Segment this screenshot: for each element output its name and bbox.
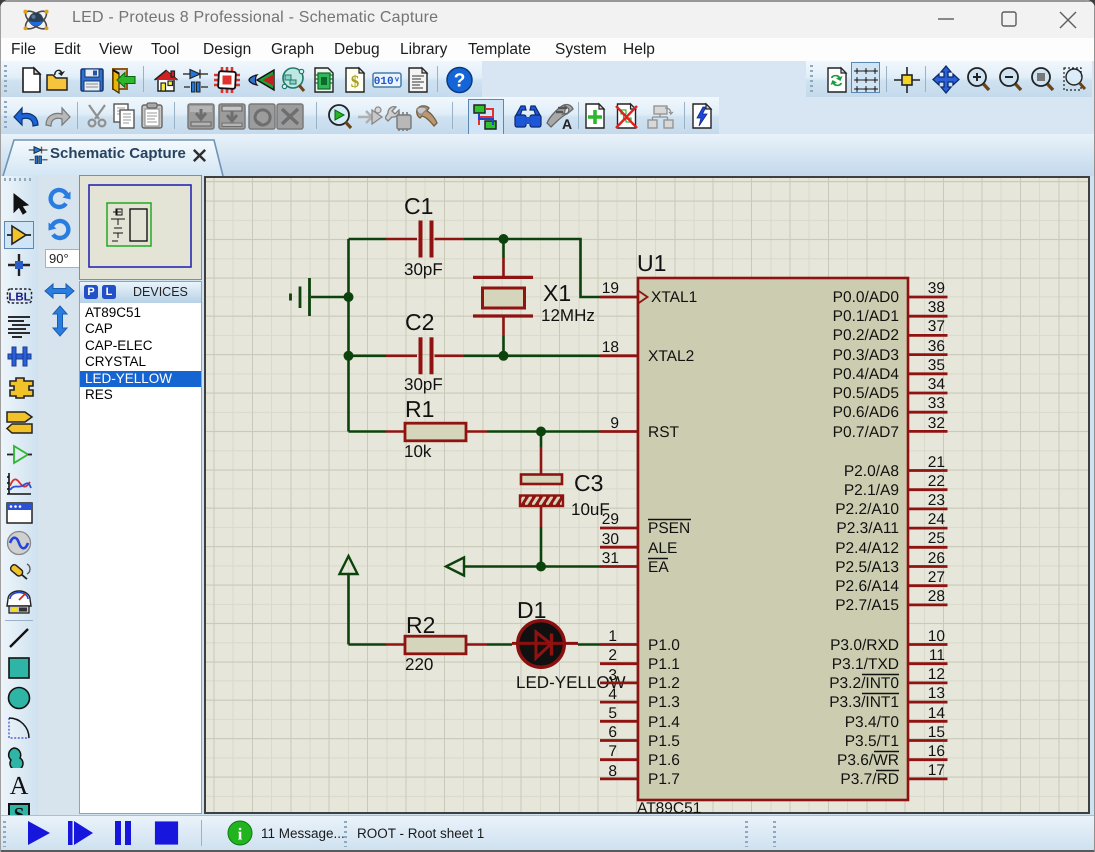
wire R2 to D1 xyxy=(487,643,512,646)
wire C2 row left xyxy=(349,354,387,357)
svg-text:18: 18 xyxy=(602,339,619,356)
svg-text:21: 21 xyxy=(928,454,945,471)
wire EA row xyxy=(464,565,600,568)
resistor R1 xyxy=(386,423,487,441)
wire ground lead xyxy=(311,296,349,299)
svg-text:P3.7/RD: P3.7/RD xyxy=(840,771,899,788)
svg-text:X1: X1 xyxy=(543,280,571,306)
svg-text:25: 25 xyxy=(928,530,945,547)
pin 19 clock wedge xyxy=(638,291,648,304)
svg-text:P3.1/TXD: P3.1/TXD xyxy=(832,656,899,673)
svg-text:14: 14 xyxy=(928,705,946,722)
svg-text:32: 32 xyxy=(928,415,945,432)
svg-text:P0.5/AD5: P0.5/AD5 xyxy=(833,385,899,402)
svg-text:P1.6: P1.6 xyxy=(648,752,680,769)
wire RST node to C3 xyxy=(540,432,543,448)
svg-text:16: 16 xyxy=(928,743,945,760)
svg-text:R1: R1 xyxy=(405,396,434,422)
svg-text:010ᵛ: 010ᵛ xyxy=(374,76,400,88)
svg-text:P1.4: P1.4 xyxy=(648,714,680,731)
svg-text:26: 26 xyxy=(928,550,945,567)
node C2 row left xyxy=(344,351,354,361)
wire power terminal stem xyxy=(347,574,350,645)
wire top rail to crystal xyxy=(502,239,505,258)
svg-text:P2.1/A9: P2.1/A9 xyxy=(844,482,899,499)
svg-text:28: 28 xyxy=(928,588,945,605)
svg-text:P0.2/AD2: P0.2/AD2 xyxy=(833,327,899,344)
pin labels left side xyxy=(648,289,697,788)
svg-text:ALE: ALE xyxy=(648,540,677,557)
svg-text:P3.2/INT0: P3.2/INT0 xyxy=(829,675,899,692)
svg-text:P2.0/A8: P2.0/A8 xyxy=(844,463,899,480)
svg-text:17: 17 xyxy=(928,762,945,779)
svg-text:A: A xyxy=(10,773,29,798)
svg-text:RST: RST xyxy=(648,424,680,441)
svg-text:$: $ xyxy=(351,72,360,91)
terminal arrow on EA net xyxy=(446,558,464,576)
svg-text:36: 36 xyxy=(928,338,945,355)
svg-text:C3: C3 xyxy=(574,470,603,496)
svg-text:P1.0: P1.0 xyxy=(648,637,680,654)
svg-text:220: 220 xyxy=(405,655,433,674)
svg-text:P0.1/AD1: P0.1/AD1 xyxy=(833,308,899,325)
svg-text:P0.4/AD4: P0.4/AD4 xyxy=(833,366,900,383)
svg-text:19: 19 xyxy=(602,280,619,297)
svg-text:30pF: 30pF xyxy=(404,260,443,279)
svg-text:12: 12 xyxy=(928,666,945,683)
svg-text:LBL: LBL xyxy=(8,292,30,304)
svg-text:22: 22 xyxy=(928,473,945,490)
svg-text:P1.7: P1.7 xyxy=(648,771,680,788)
svg-text:P2.5/A13: P2.5/A13 xyxy=(835,559,899,576)
svg-text:P3.4/T0: P3.4/T0 xyxy=(845,714,900,731)
pin numbers left side xyxy=(602,280,620,780)
capacitor C3 electrolytic xyxy=(520,447,563,527)
svg-text:EA: EA xyxy=(648,559,669,576)
svg-text:5: 5 xyxy=(608,705,617,722)
left strip icons xyxy=(7,192,31,216)
svg-text:P3.3/INT1: P3.3/INT1 xyxy=(829,694,899,711)
wire C1 to XTAL1 pin xyxy=(464,239,600,297)
svg-text:AT89C51: AT89C51 xyxy=(637,800,701,816)
svg-text:i: i xyxy=(238,825,243,844)
svg-text:39: 39 xyxy=(928,280,945,297)
svg-text:6: 6 xyxy=(608,724,617,741)
capacitor C2 xyxy=(386,337,464,374)
resistor R2 xyxy=(386,636,487,654)
svg-text:35: 35 xyxy=(928,357,945,374)
svg-text:27: 27 xyxy=(928,569,945,586)
svg-text:29: 29 xyxy=(602,511,619,528)
pin numbers right side xyxy=(928,280,946,779)
rotate / flip controls xyxy=(46,186,73,213)
svg-text:23: 23 xyxy=(928,492,945,509)
svg-text:33: 33 xyxy=(928,395,945,412)
svg-text:37: 37 xyxy=(928,318,945,335)
svg-text:?: ? xyxy=(454,71,466,92)
svg-text:P2.3/A11: P2.3/A11 xyxy=(836,520,899,537)
svg-text:P1.2: P1.2 xyxy=(648,675,680,692)
ground xyxy=(291,278,310,316)
node RST / C3 xyxy=(536,427,546,437)
overlines for active-low pin names xyxy=(648,520,899,771)
svg-text:P0.3/AD3: P0.3/AD3 xyxy=(833,347,899,364)
svg-text:C1: C1 xyxy=(404,193,433,219)
svg-text:8: 8 xyxy=(608,763,617,780)
svg-text:A: A xyxy=(562,116,572,131)
svg-text:1: 1 xyxy=(608,628,617,645)
svg-text:15: 15 xyxy=(928,724,945,741)
svg-text:9: 9 xyxy=(610,415,619,432)
wire left vertical rail xyxy=(347,239,350,432)
svg-text:4: 4 xyxy=(608,686,617,703)
svg-text:7: 7 xyxy=(608,743,617,760)
wire crystal to C2 row xyxy=(502,336,505,356)
crystal X1 xyxy=(473,258,533,336)
node ground junction xyxy=(344,292,354,302)
U1 left side pins 19,18,9,29,30,31,1-8 xyxy=(600,297,638,779)
svg-text:D1: D1 xyxy=(517,597,546,623)
svg-text:P1.5: P1.5 xyxy=(648,733,680,750)
svg-text:P0.6/AD6: P0.6/AD6 xyxy=(833,404,899,421)
wire top rail to C1 xyxy=(349,238,387,241)
svg-text:P1.1: P1.1 xyxy=(648,656,680,673)
svg-text:30pF: 30pF xyxy=(404,375,443,394)
svg-text:P2.4/A12: P2.4/A12 xyxy=(835,540,899,557)
svg-text:P2.2/A10: P2.2/A10 xyxy=(835,501,899,518)
svg-text:38: 38 xyxy=(928,299,945,316)
svg-text:XTAL1: XTAL1 xyxy=(651,289,697,306)
power terminal xyxy=(340,556,358,574)
svg-text:11: 11 xyxy=(929,647,945,664)
wire R1 to RST pin xyxy=(487,430,600,433)
svg-text:P0.0/AD0: P0.0/AD0 xyxy=(833,289,900,306)
microcontroller U1 AT89C51 xyxy=(637,250,908,817)
svg-text:P3.6/WR: P3.6/WR xyxy=(837,752,899,769)
node C2 row / crystal xyxy=(499,351,509,361)
svg-text:10k: 10k xyxy=(404,442,432,461)
svg-text:P3.5/T1: P3.5/T1 xyxy=(845,733,899,750)
svg-text:3: 3 xyxy=(608,667,617,684)
svg-text:30: 30 xyxy=(602,531,620,548)
svg-text:R2: R2 xyxy=(406,612,435,638)
svg-text:XTAL2: XTAL2 xyxy=(648,348,694,365)
wire R2 row left xyxy=(349,643,387,646)
svg-text:34: 34 xyxy=(928,376,946,393)
LED D1 xyxy=(512,621,578,668)
wire R1 row left xyxy=(349,430,387,433)
svg-text:PSEN: PSEN xyxy=(648,520,690,537)
svg-text:31: 31 xyxy=(602,550,619,567)
wire C2 to XTAL2 pin xyxy=(464,354,600,357)
wire C3 to EA row xyxy=(540,527,543,567)
svg-text:P0.7/AD7: P0.7/AD7 xyxy=(833,424,899,441)
U1 right side pins 39-32,21-28,10-17 xyxy=(908,297,948,779)
svg-text:13: 13 xyxy=(928,685,945,702)
svg-text:2: 2 xyxy=(608,647,617,664)
svg-text:P1.3: P1.3 xyxy=(648,694,680,711)
node EA / C3 xyxy=(536,562,546,572)
node top rail / crystal xyxy=(499,234,509,244)
svg-text:P2.6/A14: P2.6/A14 xyxy=(835,578,899,595)
svg-text:10: 10 xyxy=(928,628,946,645)
capacitor C1 xyxy=(386,221,464,258)
svg-text:24: 24 xyxy=(928,511,946,528)
svg-text:C2: C2 xyxy=(405,309,434,335)
pin labels right side xyxy=(829,289,899,788)
svg-text:P2.7/A15: P2.7/A15 xyxy=(835,597,899,614)
svg-text:P3.0/RXD: P3.0/RXD xyxy=(830,637,899,654)
svg-text:12MHz: 12MHz xyxy=(541,306,595,325)
wire D1 to P1.0 pin xyxy=(578,643,600,646)
svg-text:U1: U1 xyxy=(637,250,666,276)
